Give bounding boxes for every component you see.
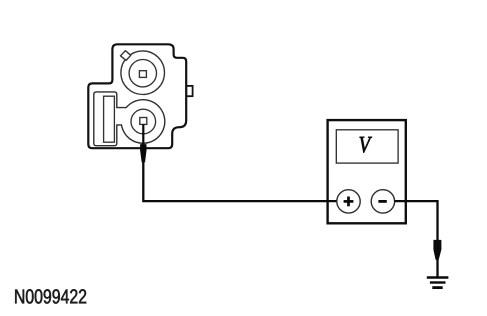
terminal 2 pin square xyxy=(140,118,147,125)
voltmeter display window xyxy=(336,130,398,163)
wire: voltmeter - terminal right then down to ground xyxy=(394,201,437,276)
terminal 1 (upper) outer circle xyxy=(121,51,165,95)
voltmeter V label xyxy=(360,137,372,153)
positive test probe tip (black) xyxy=(140,144,146,162)
connector keyway slot merged with terminal 2 outer circle xyxy=(94,92,165,146)
terminal 1 pin square xyxy=(139,71,146,78)
connector top index tab (diamond) xyxy=(121,51,131,61)
plus sign xyxy=(344,200,354,203)
ground symbol xyxy=(427,276,449,278)
connector side tab (right locking tab) xyxy=(186,86,192,96)
wire: probe down then right to voltmeter + terminal xyxy=(143,161,337,201)
connector body outline xyxy=(88,44,186,148)
terminal 2 inner circle xyxy=(131,109,156,134)
voltmeter box xyxy=(328,120,406,223)
voltmeter - terminal xyxy=(371,190,394,213)
connector keyway slot inner xyxy=(104,96,115,142)
figure number label xyxy=(15,289,86,303)
terminal 1 inner circle xyxy=(129,59,156,86)
voltmeter + terminal xyxy=(337,190,360,213)
minus sign xyxy=(378,200,386,203)
negative test probe tip (black) xyxy=(433,240,441,260)
probe pin lead into terminal 2 xyxy=(142,124,144,145)
